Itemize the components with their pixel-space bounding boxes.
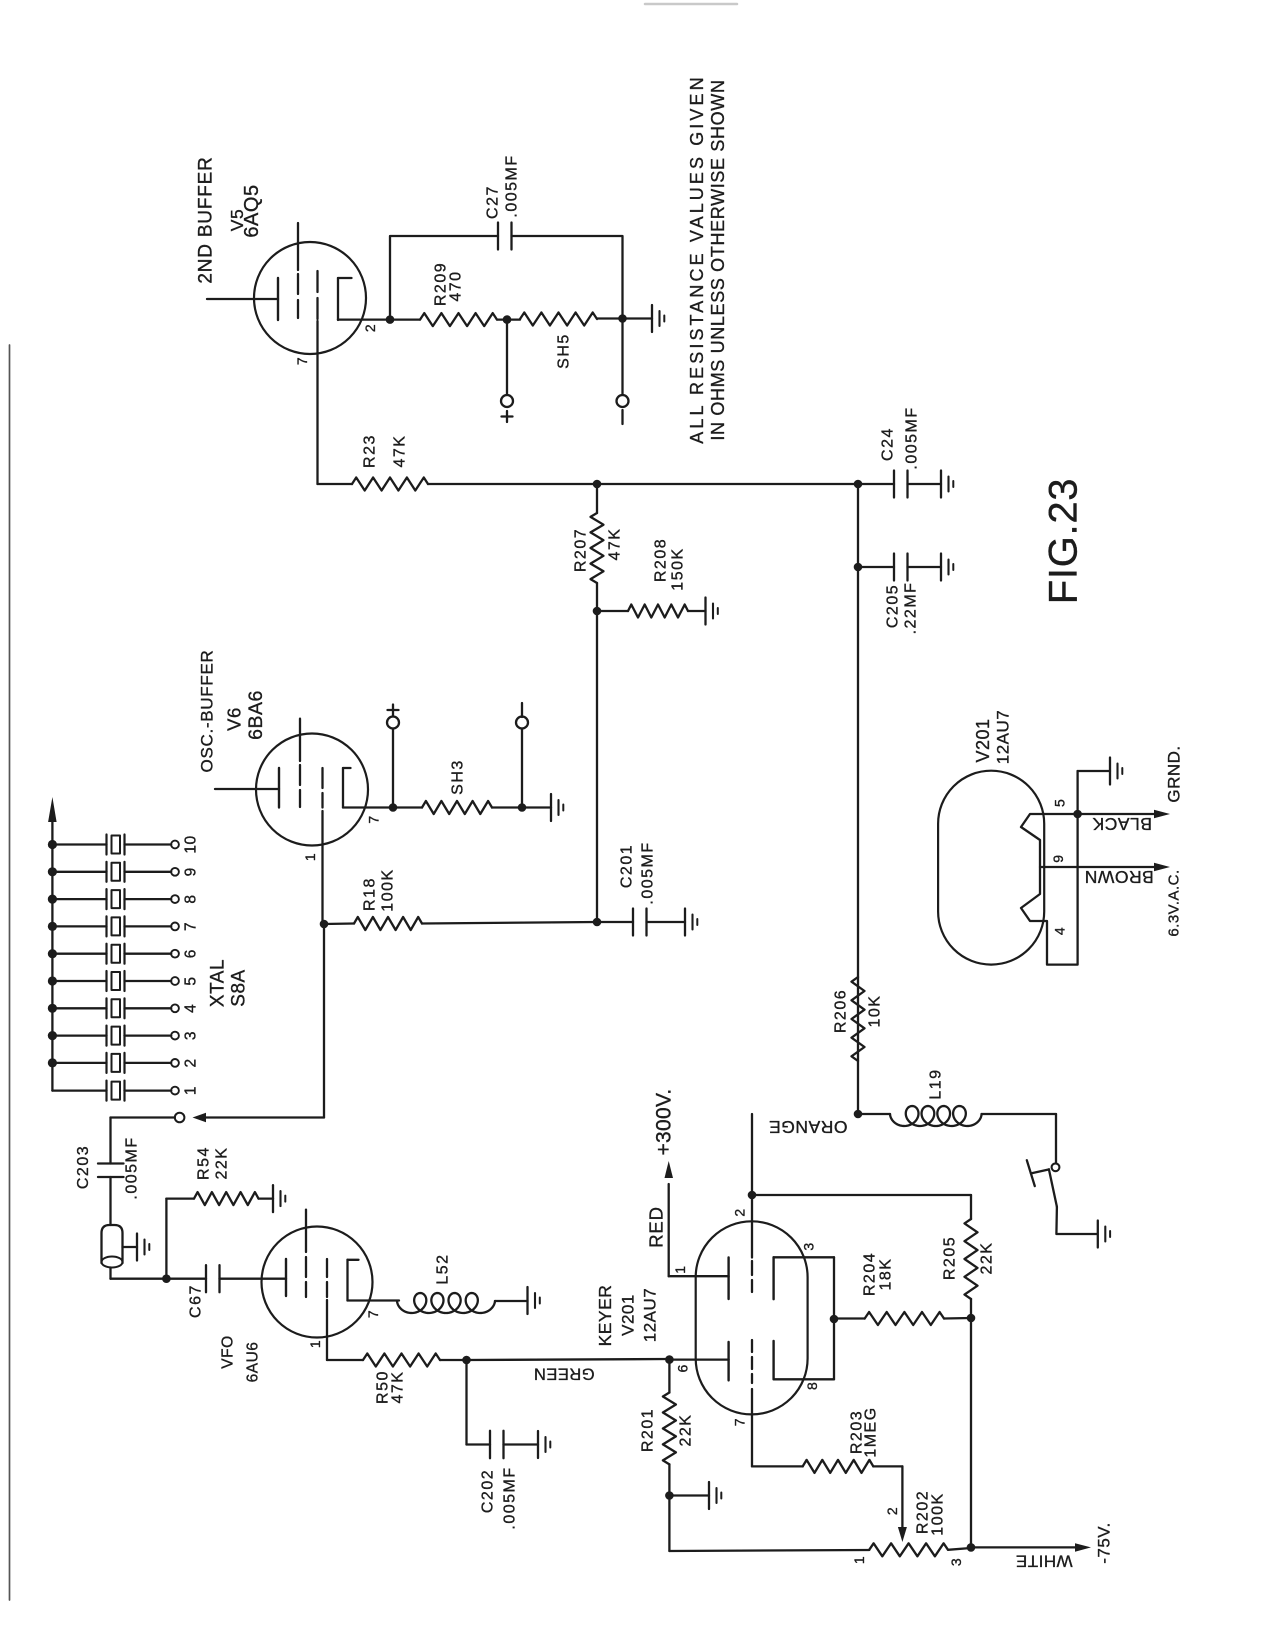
svg-text:S8A: S8A bbox=[229, 969, 250, 1006]
svg-text:L19: L19 bbox=[928, 1068, 945, 1099]
svg-text:R207: R207 bbox=[573, 528, 590, 572]
svg-text:6BA6: 6BA6 bbox=[245, 690, 267, 740]
svg-text:3: 3 bbox=[801, 1242, 817, 1250]
svg-text:SH5: SH5 bbox=[556, 333, 573, 369]
svg-text:C27: C27 bbox=[485, 185, 502, 219]
svg-text:ORANGE: ORANGE bbox=[769, 1117, 848, 1137]
svg-text:R205: R205 bbox=[942, 1236, 959, 1280]
svg-text:C203: C203 bbox=[75, 1145, 92, 1189]
svg-text:.005MF: .005MF bbox=[124, 1136, 141, 1199]
svg-text:7: 7 bbox=[366, 815, 382, 823]
svg-text:2: 2 bbox=[362, 324, 378, 332]
svg-text:OSC.-BUFFER: OSC.-BUFFER bbox=[198, 650, 217, 773]
svg-text:C202: C202 bbox=[480, 1469, 497, 1513]
svg-text:12AU7: 12AU7 bbox=[641, 1288, 660, 1342]
svg-text:2ND BUFFER: 2ND BUFFER bbox=[196, 156, 217, 283]
svg-text:IN OHMS UNLESS OTHERWISE SHOWN: IN OHMS UNLESS OTHERWISE SHOWN bbox=[708, 79, 728, 440]
svg-text:100K: 100K bbox=[930, 1492, 947, 1535]
svg-text:22K: 22K bbox=[979, 1242, 996, 1275]
svg-text:47K: 47K bbox=[390, 1371, 407, 1404]
svg-text:8: 8 bbox=[804, 1382, 820, 1390]
svg-text:6.3V.A.C.: 6.3V.A.C. bbox=[1166, 869, 1183, 936]
svg-text:2: 2 bbox=[732, 1208, 748, 1216]
svg-text:6: 6 bbox=[675, 1364, 691, 1372]
svg-text:C24: C24 bbox=[880, 427, 897, 461]
svg-text:BROWN: BROWN bbox=[1084, 867, 1154, 887]
svg-text:150K: 150K bbox=[670, 547, 687, 590]
svg-text:XTAL: XTAL bbox=[208, 959, 229, 1007]
svg-text:6: 6 bbox=[183, 949, 200, 958]
svg-text:GREEN: GREEN bbox=[533, 1365, 594, 1383]
svg-text:R206: R206 bbox=[833, 989, 850, 1033]
svg-text:R204: R204 bbox=[862, 1252, 879, 1296]
svg-text:.005MF: .005MF bbox=[502, 1466, 519, 1529]
svg-text:FIG.23: FIG.23 bbox=[1042, 478, 1086, 604]
svg-text:R208: R208 bbox=[653, 538, 670, 582]
svg-text:10K: 10K bbox=[867, 995, 884, 1028]
svg-text:47K: 47K bbox=[607, 528, 624, 561]
svg-text:KEYER: KEYER bbox=[595, 1285, 615, 1347]
svg-text:6AQ5: 6AQ5 bbox=[241, 184, 263, 237]
svg-text:SH3: SH3 bbox=[450, 759, 467, 795]
svg-text:1: 1 bbox=[302, 853, 318, 861]
svg-text:V201: V201 bbox=[973, 718, 993, 762]
svg-text:22K: 22K bbox=[214, 1147, 231, 1180]
svg-text:R201: R201 bbox=[640, 1408, 657, 1452]
svg-text:GRND.: GRND. bbox=[1165, 745, 1184, 802]
svg-text:.005MF: .005MF bbox=[904, 406, 921, 469]
svg-text:.005MF: .005MF bbox=[504, 154, 521, 217]
svg-text:C67: C67 bbox=[188, 1284, 205, 1318]
svg-text:3: 3 bbox=[183, 1031, 200, 1040]
svg-text:8: 8 bbox=[183, 895, 200, 904]
svg-text:BLACK: BLACK bbox=[1092, 814, 1152, 834]
svg-text:6AU6: 6AU6 bbox=[245, 1342, 262, 1383]
svg-text:+300V.: +300V. bbox=[653, 1088, 676, 1155]
svg-text:1: 1 bbox=[672, 1265, 688, 1273]
svg-text:-75V.: -75V. bbox=[1095, 1522, 1114, 1564]
svg-text:5: 5 bbox=[183, 976, 200, 985]
svg-text:22K: 22K bbox=[678, 1414, 695, 1447]
svg-text:9: 9 bbox=[1050, 854, 1066, 862]
svg-text:C205: C205 bbox=[885, 584, 902, 628]
svg-text:7: 7 bbox=[365, 1310, 381, 1318]
svg-text:C201: C201 bbox=[619, 844, 636, 888]
svg-text:.005MF: .005MF bbox=[640, 841, 657, 904]
svg-text:2: 2 bbox=[183, 1058, 200, 1067]
svg-text:2: 2 bbox=[884, 1507, 900, 1515]
svg-text:RED: RED bbox=[646, 1206, 667, 1247]
svg-text:4: 4 bbox=[1052, 927, 1068, 935]
svg-text:1MEG: 1MEG bbox=[863, 1406, 880, 1457]
svg-text:1: 1 bbox=[851, 1556, 867, 1564]
svg-text:100K: 100K bbox=[380, 868, 397, 911]
svg-text:470: 470 bbox=[448, 270, 465, 301]
svg-text:10: 10 bbox=[183, 835, 200, 853]
svg-text:3: 3 bbox=[948, 1558, 964, 1566]
svg-text:L52: L52 bbox=[435, 1253, 452, 1284]
svg-text:7: 7 bbox=[183, 922, 200, 931]
svg-text:VFO: VFO bbox=[220, 1335, 237, 1368]
svg-text:R23: R23 bbox=[362, 434, 379, 468]
svg-text:5: 5 bbox=[1052, 799, 1068, 807]
svg-text:R54: R54 bbox=[196, 1146, 213, 1180]
svg-text:47K: 47K bbox=[392, 435, 409, 468]
svg-text:9: 9 bbox=[183, 867, 200, 876]
svg-text:.22MF: .22MF bbox=[903, 582, 920, 635]
svg-text:7: 7 bbox=[732, 1418, 748, 1426]
svg-text:7: 7 bbox=[294, 357, 310, 365]
svg-text:WHITE: WHITE bbox=[1015, 1552, 1072, 1571]
svg-text:1: 1 bbox=[183, 1086, 200, 1095]
svg-text:18K: 18K bbox=[878, 1258, 895, 1291]
svg-text:ALL RESISTANCE VALUES GIVEN: ALL RESISTANCE VALUES GIVEN bbox=[687, 74, 707, 443]
svg-text:1: 1 bbox=[307, 1340, 323, 1348]
svg-text:R18: R18 bbox=[362, 877, 379, 911]
svg-text:V201: V201 bbox=[619, 1294, 638, 1336]
svg-text:V6: V6 bbox=[224, 707, 245, 731]
svg-text:4: 4 bbox=[183, 1004, 200, 1013]
svg-text:12AU7: 12AU7 bbox=[994, 710, 1013, 764]
